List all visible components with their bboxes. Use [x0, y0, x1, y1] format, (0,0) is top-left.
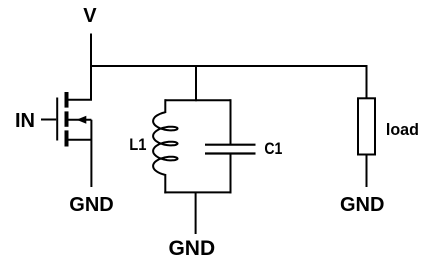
wire source down to ground: [90, 120, 92, 187]
svg-text:GND: GND: [168, 237, 215, 260]
transistor Q1 body bar: [65, 111, 69, 126]
capacitor C1 top plate: [205, 144, 256, 146]
svg-text:L1: L1: [129, 135, 146, 154]
inductor L1 coil: [153, 112, 177, 175]
svg-text:GND: GND: [69, 194, 113, 216]
wire capacitor top lead: [230, 99, 232, 144]
wire body lead: [69, 119, 92, 121]
wire coil top stub: [164, 99, 166, 113]
svg-text:IN: IN: [15, 110, 35, 132]
wire drain lead: [69, 99, 93, 101]
svg-text:V: V: [83, 5, 97, 27]
capacitor C1 bottom lead: [230, 154, 232, 193]
transistor Q1 gate line: [56, 98, 58, 141]
wire gate lead from IN: [41, 119, 56, 121]
wire rail drop to tank: [195, 65, 197, 101]
wire coil bottom stub: [164, 174, 166, 193]
capacitor C1 bottom plate: [205, 152, 256, 154]
svg-text:load: load: [386, 120, 419, 139]
wire main top rail: [90, 65, 367, 67]
wire rail drop to load: [366, 65, 368, 99]
transistor Q1 body arrow: [77, 116, 87, 124]
transistor Q1 drain bar: [65, 92, 69, 108]
wire source lead: [69, 139, 92, 141]
wire tank center stub to ground: [195, 192, 197, 234]
resistor load box: [358, 98, 375, 154]
wire tank bottom side: [164, 191, 231, 193]
wire tank top side: [165, 99, 230, 101]
transistor Q1 source bar: [65, 130, 69, 146]
svg-text:C1: C1: [264, 139, 282, 158]
wire V stub to transistor drain: [90, 34, 92, 100]
svg-text:GND: GND: [340, 194, 384, 216]
wire load bottom to ground: [366, 155, 368, 188]
